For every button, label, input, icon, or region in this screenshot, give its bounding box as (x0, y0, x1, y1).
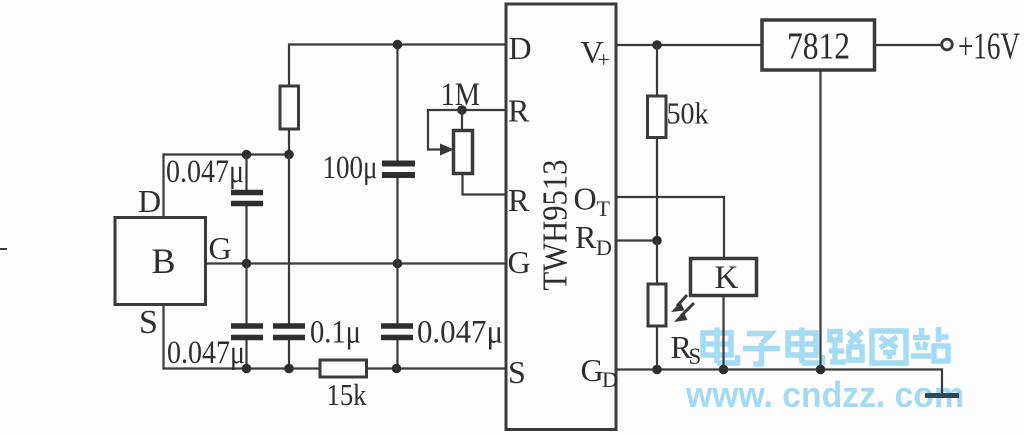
resistor R2 15k (horizontal, in S line) (320, 360, 367, 377)
terminal +16V circle (942, 39, 953, 50)
svg-text:G: G (508, 244, 531, 280)
wire O_T line to relay K (616, 197, 724, 259)
wire 7812 ground drop (819, 70, 821, 370)
label 0.1u (310, 315, 361, 351)
wire top rail (164, 155, 290, 218)
svg-text:R: R (508, 93, 530, 129)
label R (IC pin 2) (508, 182, 530, 218)
capacitor C1 0.047u top (wires) (245, 155, 247, 264)
svg-text:TWH9513: TWH9513 (536, 160, 575, 291)
node junction 1M top (457, 105, 467, 115)
capacitor C5 0.1u (wires, crosses G line) (288, 155, 290, 369)
svg-text:K: K (715, 260, 739, 296)
potentiometer RP body (454, 110, 473, 174)
label V+ (581, 34, 610, 72)
label R_D (575, 219, 612, 260)
node junction S/C3 (392, 364, 402, 374)
label 100u (323, 150, 378, 186)
label 0.047u mid (417, 315, 503, 351)
resistor R4 RS (wires) (656, 241, 658, 370)
svg-text:R: R (575, 219, 597, 255)
svg-text:0.047μ: 0.047μ (167, 335, 245, 371)
wire V+ line (IC to 7812) (616, 44, 762, 46)
label S (B pin) (139, 304, 158, 341)
sensor B box (115, 218, 206, 305)
node junction G/C1-C4 (242, 259, 252, 269)
wm char lu (829, 331, 862, 362)
watermark line2 www.cndzz.com (685, 374, 964, 415)
label 0.047u top (166, 154, 244, 190)
label O_T (574, 181, 611, 222)
label D (B pin) (138, 183, 161, 219)
svg-text:S: S (139, 304, 158, 341)
label R_S (671, 329, 702, 369)
svg-text:0.047μ: 0.047μ (166, 154, 244, 190)
label R (IC pin 1) (508, 93, 530, 129)
watermark line1 dianzidianlutuzhan (703, 327, 949, 364)
wire D line (R1 top to IC pin D) (289, 45, 506, 87)
potentiometer RP 1M top wire to IC pin R (462, 109, 506, 111)
node junction R_D/50k/RS (652, 236, 662, 246)
edge tick left margin (0, 248, 7, 250)
svg-text:7812: 7812 (787, 26, 850, 68)
svg-text:D: D (596, 235, 612, 260)
node junction S/C4 (242, 364, 252, 374)
wire R_D line (616, 239, 657, 241)
relay K box (691, 259, 757, 296)
capacitor C4 plates (231, 326, 263, 338)
svg-text:50k: 50k (667, 96, 709, 131)
svg-text:G: G (581, 352, 604, 388)
node junction top rail / R1-C5 branch (284, 150, 294, 160)
wire RP bottom to IC pin R2 (463, 174, 507, 195)
label 1M (441, 77, 481, 113)
label B (152, 241, 176, 281)
IC U1 TWH9513 outline (506, 4, 616, 430)
wm char dian2 (788, 328, 823, 364)
wm char tu (872, 331, 906, 363)
label 15k (327, 377, 367, 412)
svg-text:D: D (602, 367, 618, 392)
capacitor C3 plates (381, 326, 413, 338)
svg-text:G: G (209, 230, 232, 266)
capacitor C5 plates (273, 326, 305, 338)
svg-text:+16V: +16V (958, 26, 1020, 68)
wire S line left segment (164, 305, 321, 369)
wm char zhan (911, 327, 949, 361)
svg-text:S: S (689, 344, 702, 369)
svg-text:D: D (509, 30, 532, 66)
wire R1 bottom to top rail (288, 129, 290, 155)
resistor R4 RS body (648, 284, 666, 326)
svg-text:0.047μ: 0.047μ (417, 315, 503, 351)
wire K bottom to GD line (722, 296, 724, 370)
wire 7812 output (875, 44, 942, 46)
node junction top rail / C1 (242, 150, 252, 160)
capacitor C4 0.047u (below G, x=246) wires (245, 264, 247, 369)
svg-text:R: R (508, 182, 530, 218)
node junction GD/RS (652, 365, 662, 375)
node junction V+/50k (652, 40, 662, 50)
label TWH9513 (536, 160, 575, 291)
label +16V (958, 26, 1020, 68)
label G (IC pin) (508, 244, 531, 280)
wire G_D line (616, 370, 942, 395)
svg-text:O: O (574, 181, 597, 217)
wm char zi (743, 334, 780, 365)
capacitor C3 0.047u (below G, x=397) wires (396, 264, 398, 369)
wire G line (B to IC pin G) (206, 262, 507, 264)
wire S line right segment (367, 367, 507, 369)
capacitor C1 plates (231, 193, 263, 204)
capacitor C2 plates (382, 164, 415, 176)
svg-text:S: S (508, 354, 526, 390)
label G_D (581, 352, 618, 392)
svg-text:15k: 15k (327, 377, 367, 412)
label K (715, 260, 739, 296)
arrows at RS (photo arrows) (677, 295, 694, 316)
wm char dian1 (703, 328, 738, 364)
resistor R3 50k (wires) (656, 45, 658, 241)
label 50k (667, 96, 709, 131)
ground symbol (925, 393, 959, 398)
node junction GD/K (719, 365, 729, 375)
capacitor C2 100u (wires) (396, 45, 398, 264)
node junction S/C5 (284, 364, 294, 374)
svg-text:1M: 1M (441, 77, 481, 113)
svg-text:0.1μ: 0.1μ (310, 315, 361, 351)
label D (IC pin) (509, 30, 532, 66)
label G (B pin) (209, 230, 232, 266)
resistor R1 (unlabeled, vertical) (280, 86, 299, 129)
svg-text:T: T (597, 196, 611, 221)
svg-text:www. cndzz. com: www. cndzz. com (685, 374, 964, 415)
label 0.047u bottom-left (167, 335, 245, 371)
node junction D line / C2 (393, 40, 403, 50)
node junction GD/7812 (816, 365, 826, 375)
label S (IC pin) (508, 354, 526, 390)
node junction G/C2-C3 (393, 259, 403, 269)
potentiometer RP wiper loop and arrow (428, 110, 462, 150)
svg-text:100μ: 100μ (323, 150, 378, 186)
svg-text:D: D (138, 183, 161, 219)
svg-text:+: + (598, 47, 610, 72)
label 7812 (787, 26, 850, 68)
resistor R3 50k body (648, 96, 667, 138)
svg-text:B: B (152, 241, 176, 281)
regulator 7812 box (762, 20, 875, 70)
